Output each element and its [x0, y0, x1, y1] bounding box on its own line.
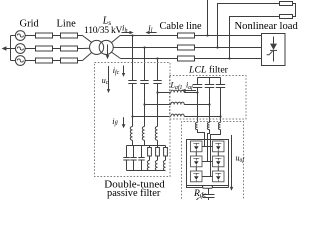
inductor Laf2 c — [218, 123, 220, 130]
wire passive branch 3 middle — [157, 84, 159, 127]
wire bypass right link — [293, 4, 296, 17]
inductor Laf2 b — [207, 123, 209, 130]
resistor line impedance Z1b — [36, 46, 53, 51]
resistor cable impedance c — [178, 56, 195, 61]
node junction riser B on bus B — [216, 46, 218, 48]
arrow voltage uaf — [230, 135, 233, 191]
wire riser phase B to bypass — [218, 4, 280, 48]
inductor L1b passive — [142, 127, 144, 141]
wire fan out of transformer phase A — [111, 36, 120, 43]
arrow current ifc — [122, 66, 125, 77]
wire riser phase A to top edge — [207, 0, 209, 36]
wire phase C left row — [25, 60, 82, 62]
resistor R2a and inductor L2a branch — [147, 146, 151, 171]
capacitor Cdc — [203, 195, 215, 201]
wire bypass return to phase C — [230, 17, 280, 59]
wire feeder a lower — [197, 93, 199, 123]
wire bridge mid row1 — [202, 146, 213, 148]
arrow current iaf — [181, 89, 196, 92]
inductor L1a passive — [130, 127, 132, 141]
node junction feeder b row2 — [208, 103, 210, 105]
transformer T1 winding 2 — [99, 40, 113, 54]
IGBT Q3 — [191, 156, 203, 167]
svg-text:Grid: Grid — [20, 18, 40, 29]
AC source G2 — [11, 44, 26, 54]
resistor line impedance Z1c — [36, 58, 53, 63]
wire LCL row 2 right — [184, 104, 209, 106]
wire LCL row 3 right — [184, 116, 220, 118]
thyristor V1 — [267, 37, 277, 62]
dashed box LCL filter — [170, 76, 247, 120]
wire feeder c lower — [220, 117, 222, 123]
wire bridge column links — [196, 152, 218, 171]
svg-text:ih: ih — [122, 23, 128, 34]
IGBT Q6 — [213, 171, 225, 182]
capacitor C2a branch — [123, 146, 129, 171]
inductor Laf2 a — [195, 123, 197, 130]
resistor line impedance Z1a — [36, 33, 53, 38]
resistor cable impedance a — [178, 33, 195, 38]
svg-text:110/35 kV: 110/35 kV — [84, 25, 122, 36]
arrow load current below transformer — [106, 45, 110, 60]
wire feeder c upper — [220, 88, 222, 117]
node junction riser A on bus A — [206, 34, 208, 36]
IGBT Q5 — [191, 171, 203, 182]
arrow load current il — [145, 31, 156, 34]
capacitor Cfb — [205, 78, 214, 88]
resistor line impedance Z2a — [61, 33, 78, 38]
wire passive branch 2 middle — [144, 84, 146, 127]
resistor line impedance Z2b — [61, 46, 78, 51]
IGBT Q1 — [191, 141, 203, 152]
arrow voltage uc — [107, 66, 110, 93]
capacitor C2b branch — [130, 146, 136, 171]
wire feeder b lower — [209, 105, 211, 123]
wire L1c to bus — [157, 140, 159, 145]
svg-text:Laf1: Laf1 — [170, 81, 183, 91]
node junction bypass on bus C — [228, 57, 230, 59]
resistor bypass box 1 — [280, 2, 293, 6]
resistor cable impedance b — [178, 45, 195, 50]
node junction LCL row3 on branch 1 — [131, 115, 133, 117]
wire phase A left row — [25, 35, 82, 37]
wire fan into transformer phase B — [83, 47, 90, 49]
wire fan into transformer phase A — [83, 36, 92, 43]
wire LCL row 3 left — [133, 116, 171, 118]
wire fan out of transformer phase C — [111, 52, 120, 59]
inductor Laf1 phase b — [171, 102, 184, 104]
svg-text:uc: uc — [102, 76, 109, 86]
resistor bypass box 2 — [280, 15, 293, 19]
node junction feeder c row3 — [219, 115, 221, 117]
AC source G3 — [11, 56, 26, 66]
wire phase B left row — [25, 48, 82, 50]
capacitor C1a — [128, 81, 136, 84]
resistor line impedance Z2c — [61, 58, 78, 63]
converter bridge frame — [187, 140, 229, 186]
nonlinear load box U1 — [262, 34, 286, 66]
wire passive branch 3 upper — [157, 59, 159, 81]
svg-text:passive filter: passive filter — [107, 188, 161, 199]
wire grid left bus — [10, 36, 12, 61]
node arrow to upstream grid — [2, 46, 11, 51]
capacitor Cfc — [216, 78, 225, 88]
wire feeder a upper — [197, 88, 199, 93]
AC source G1 — [11, 31, 26, 41]
svg-text:il: il — [148, 23, 152, 34]
svg-text:Line: Line — [57, 18, 77, 29]
wire bridge mid row2 — [202, 161, 213, 163]
svg-text:Cable line: Cable line — [160, 21, 202, 32]
node tap phase B passive filter — [143, 46, 145, 48]
inductor Laf1 phase c — [171, 114, 184, 116]
capacitor C1b — [140, 81, 148, 84]
wire LCL row 1 left — [158, 92, 171, 94]
node junction LCL row1 on branch 3 — [156, 91, 158, 93]
capacitor C2c branch — [138, 146, 144, 171]
transformer T1 winding 1 — [90, 40, 104, 54]
wire DC bus with Rdc — [187, 186, 229, 188]
wire bus phase C — [121, 58, 263, 60]
wire fan out of transformer phase B — [113, 46, 119, 48]
capacitor C1c — [153, 81, 161, 84]
inductor L1c passive — [155, 127, 157, 141]
wire feeder a into bridge — [198, 130, 205, 147]
wire L1b to bus — [144, 140, 146, 145]
resistor R2c and inductor L2c branch — [163, 146, 167, 171]
arrow current ifl — [122, 117, 126, 128]
svg-text:LCL filter: LCL filter — [188, 65, 229, 76]
wire L1a to bus — [132, 140, 134, 145]
svg-text:Nonlinear load: Nonlinear load — [235, 21, 299, 32]
wire feeder c into bridge — [211, 130, 221, 177]
wire bridge mid row3 — [202, 176, 213, 178]
wire feeder b upper — [209, 88, 211, 105]
wire LCL capacitor bus — [198, 77, 221, 79]
node junction feeder a row1 — [196, 91, 198, 93]
capacitor Cfa — [193, 78, 202, 88]
wire LCL row 2 left — [145, 104, 171, 106]
IGBT Q2 — [213, 141, 225, 152]
svg-text:iaf: iaf — [186, 81, 194, 91]
node tap phase A passive filter — [131, 34, 133, 36]
wire passive branch 2 upper — [144, 48, 146, 81]
wire passive filter bottom bus — [127, 170, 166, 172]
node junction LCL row2 on branch 2 — [143, 103, 145, 105]
wire passive filter top bus — [127, 145, 166, 147]
wire passive branch 1 middle — [132, 84, 134, 127]
wire DC link to Cdc — [208, 188, 210, 194]
node tap phase C passive filter — [156, 57, 158, 59]
wire bus phase B — [119, 47, 262, 49]
resistor R2b and inductor L2b branch — [155, 146, 159, 171]
dashed box double-tuned passive filter — [95, 63, 171, 177]
arrow harmonic current ih — [121, 31, 133, 34]
wire passive branch 1 upper — [132, 36, 134, 81]
inductor Laf1 phase a — [171, 90, 184, 92]
wire feeder b into bridge — [208, 130, 210, 162]
svg-text:ifc: ifc — [113, 66, 120, 76]
wire fan into transformer phase C — [83, 53, 92, 61]
dashed box converter — [182, 122, 244, 203]
svg-text:ifl: ifl — [112, 117, 118, 127]
IGBT Q4 — [213, 156, 225, 167]
wire bus phase A — [120, 35, 262, 37]
wire LCL row 1 right — [184, 92, 197, 94]
resistor Rdc — [203, 186, 213, 189]
